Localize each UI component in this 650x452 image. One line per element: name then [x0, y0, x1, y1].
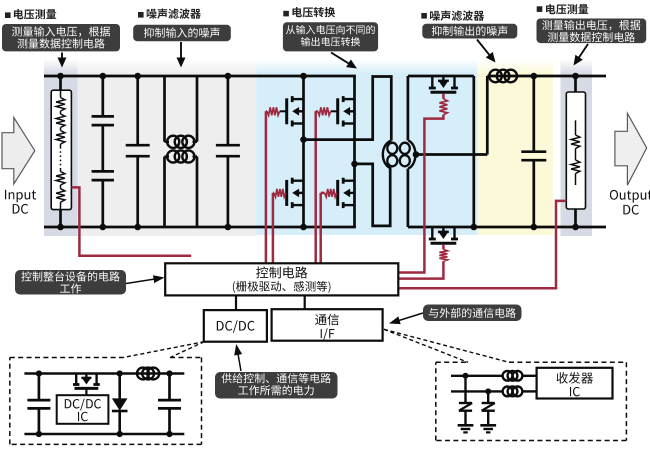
control circuit box U1 — [165, 263, 398, 295]
callout: circuit that controls whole device — [15, 270, 126, 295]
wire: sync rectifier common vertical — [472, 76, 475, 227]
dashed detail box: transceiver detail — [436, 361, 468, 363]
node: divider bottom — [57, 224, 64, 231]
callout: suppress output noise box — [422, 24, 517, 39]
transistor Q6 sync rectifier bottom with red sense resistor — [431, 227, 433, 239]
label: voltage conversion header — [283, 11, 289, 17]
transistor Q2 low-side left with gate resistor — [285, 180, 288, 206]
wire: bottom rail input section — [44, 226, 356, 229]
inductor: output filter choke — [489, 70, 502, 83]
background: input noise filter zone — [78, 60, 257, 236]
capacitor: comm filter cap 2 to ground — [487, 391, 489, 403]
callout: suppress input noise box — [133, 25, 231, 41]
transistor: detail high-side switch — [75, 374, 77, 385]
arrow from suppress-input box to filter — [180, 42, 182, 62]
wire: red sense tap from input divider to control circuit — [71, 187, 191, 255]
node: H-bridge leg2 midpoint — [351, 161, 358, 168]
wire: detail bottom rail — [24, 433, 184, 436]
DC/DC IC box — [57, 395, 109, 424]
wire: H-bridge leg 1 — [302, 76, 305, 227]
callout: convert voltage box — [283, 22, 378, 51]
capacitor: comm filter cap 1 to ground — [464, 376, 466, 403]
wire: red sense tap from output divider to control circuit — [398, 201, 566, 288]
callout: communication circuit with outside — [423, 305, 522, 322]
background: voltage conversion blue zone — [256, 60, 477, 235]
transistor Q1 high-side left with gate resistor — [285, 98, 288, 124]
wire: choke to transceiver IC — [522, 375, 536, 377]
node: output divider bottom — [572, 224, 579, 231]
transistor Q4 low-side right with gate resistor — [336, 180, 339, 206]
transformer T1 primary loop — [304, 77, 392, 141]
wire: control to comm I/F — [304, 295, 306, 309]
arrow from measure-output box to right divider — [577, 44, 588, 61]
transformer T1 winding symbol — [383, 141, 391, 169]
wire: control to DC/DC — [235, 295, 237, 310]
node: output divider top — [572, 73, 579, 80]
node: H-bridge leg1 rail joints — [300, 73, 307, 80]
ground symbol 2 — [480, 424, 496, 427]
wire: red sense wire Q5 to control circuit — [398, 115, 443, 273]
wire: comm line pair — [451, 375, 503, 377]
background: input measurement gray bar — [44, 60, 78, 237]
communication I/F box U3 — [272, 309, 383, 341]
node: comm line junctions — [463, 373, 469, 379]
transistor Q3 high-side right with gate resistor — [336, 98, 339, 124]
callout: measure output voltage box — [537, 19, 647, 44]
inductor: comm common-mode choke — [503, 371, 513, 381]
DC/DC converter box U2 — [204, 310, 267, 342]
node: common vertical to bottom rail — [471, 224, 478, 231]
inductor: common-mode choke input filter — [163, 76, 166, 142]
resistor divider: output voltage measurement — [574, 76, 577, 92]
wire: H-bridge leg 2 — [353, 76, 356, 227]
capacitor: input filter C3 — [227, 76, 230, 145]
label: output noise filter header — [421, 13, 427, 19]
node: transformer centre tap — [413, 151, 420, 158]
capacitor: detail input cap — [38, 374, 41, 401]
wire: red sense wire Q6 to control circuit — [398, 261, 443, 278]
dashed funnel lines to comm I/F box — [384, 329, 468, 362]
label: input noise filter header — [138, 12, 144, 18]
transistor Q5 sync rectifier top with red sense resistor — [431, 76, 433, 88]
resistor divider: input voltage measurement — [59, 76, 62, 90]
wire: top rail input section — [44, 75, 356, 78]
diode: detail freewheel diode — [118, 374, 121, 399]
capacitor: output filter — [532, 76, 535, 152]
label: output voltage measurement header — [537, 6, 543, 12]
capacitor: detail output cap — [168, 374, 171, 401]
ground symbol 1 — [458, 424, 474, 427]
wire: output top rail — [487, 75, 606, 78]
arrow from convert box to H-bridge — [331, 53, 352, 66]
transformer T1 secondary connections — [407, 76, 410, 141]
output DC arrow — [615, 113, 647, 185]
input DC arrow — [2, 118, 35, 184]
node: divider top — [57, 73, 64, 80]
transceiver IC box — [537, 368, 613, 399]
arrow from suppress-output box to output inductor — [477, 40, 492, 58]
capacitor: input filter C2 — [136, 76, 139, 145]
callout: measure input voltage box — [2, 24, 120, 51]
wire: centre tap to output riser — [416, 153, 487, 156]
dashed funnel lines to DC/DC box — [123, 342, 204, 358]
background: output measurement gray bar — [561, 60, 593, 237]
wire: secondary bottom line / output bottom rail — [408, 226, 606, 229]
wire: detail top rail — [24, 372, 184, 375]
arrow from measure-input box to divider — [61, 53, 63, 62]
capacitor: input filter C1a/C1b series branch — [101, 76, 104, 116]
background: output noise filter yellow zone — [478, 60, 554, 235]
wire: secondary top line to sync rectifier — [408, 75, 474, 78]
dashed detail box: DC/DC converter detail — [10, 357, 123, 359]
node: H-bridge leg1 midpoint — [300, 136, 307, 143]
callout: power supply for control/comm circuits — [215, 372, 338, 399]
label: input voltage measurement header — [5, 12, 11, 18]
inductor: detail output inductor — [137, 368, 149, 380]
background fade at top — [0, 0, 1, 1]
